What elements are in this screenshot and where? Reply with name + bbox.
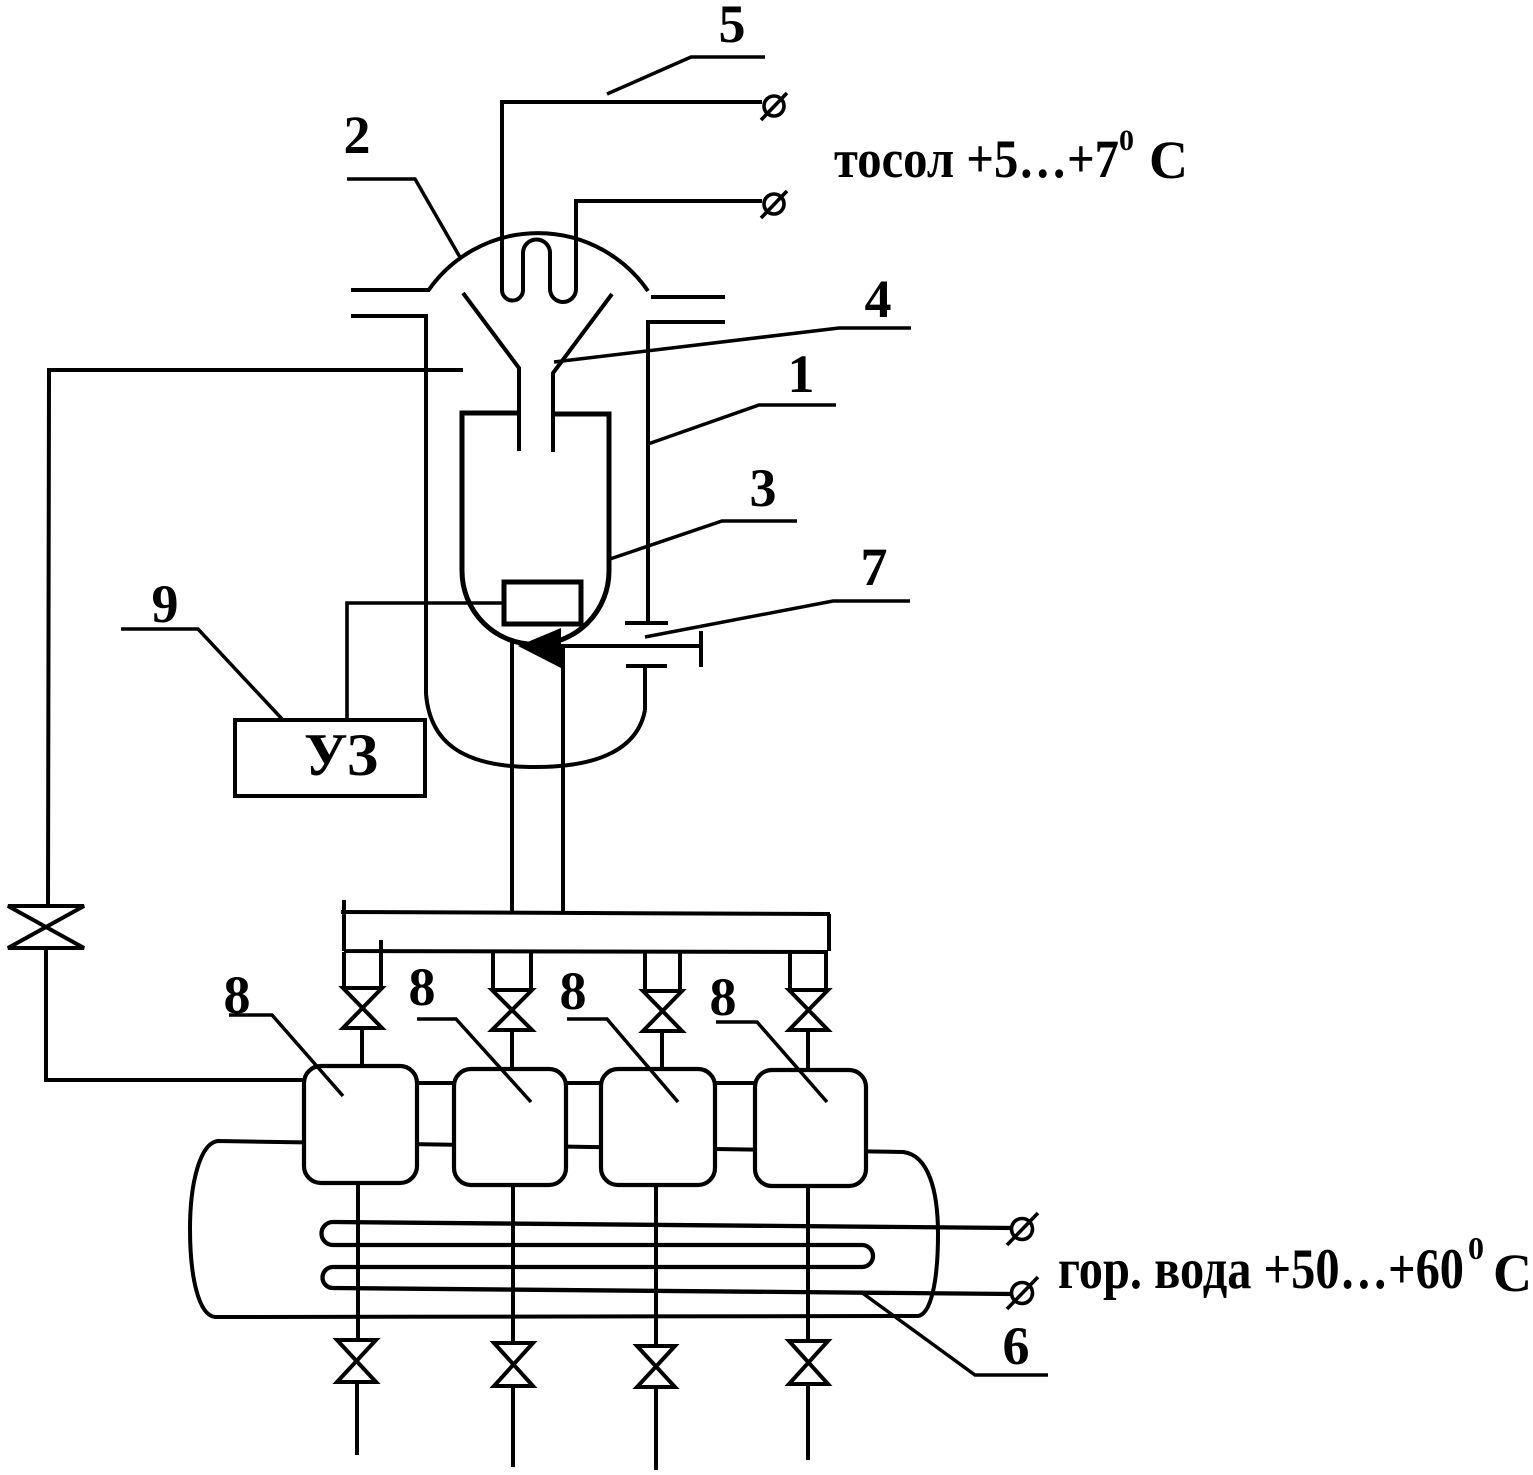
svg-text:3: 3 xyxy=(750,458,777,518)
svg-text:8: 8 xyxy=(224,965,251,1025)
svg-text:2: 2 xyxy=(344,105,371,165)
svg-text:7: 7 xyxy=(861,537,888,597)
svg-text:С: С xyxy=(1493,1243,1532,1303)
svg-text:1: 1 xyxy=(788,344,815,404)
svg-text:0: 0 xyxy=(1119,124,1134,157)
svg-text:УЗ: УЗ xyxy=(304,722,378,788)
svg-text:5: 5 xyxy=(719,0,746,54)
svg-text:8: 8 xyxy=(409,957,436,1017)
svg-text:6: 6 xyxy=(1003,1316,1030,1376)
svg-text:8: 8 xyxy=(560,961,587,1021)
svg-text:9: 9 xyxy=(152,574,179,634)
svg-text:тосол +5…+7: тосол +5…+7 xyxy=(834,129,1119,189)
svg-text:0: 0 xyxy=(1468,1230,1484,1266)
svg-text:8: 8 xyxy=(710,967,737,1027)
svg-text:4: 4 xyxy=(865,269,892,329)
svg-text:С: С xyxy=(1149,130,1188,190)
svg-text:гор. вода +50…+60: гор. вода +50…+60 xyxy=(1058,1238,1464,1301)
